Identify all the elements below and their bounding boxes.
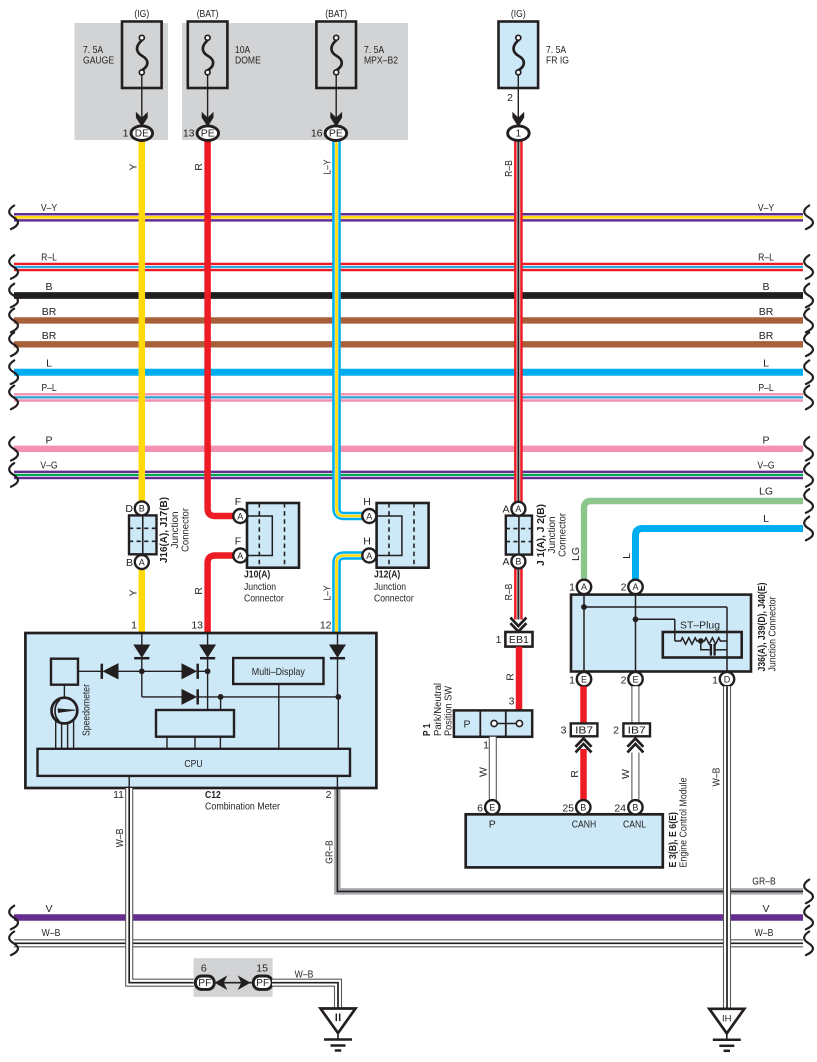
- svg-text:R: R: [193, 587, 205, 595]
- wire from pin1 node down to lower diode row: [141, 671, 143, 697]
- bus wire W-B (horizontal): [14, 939, 803, 947]
- connector arrow into EB1 (double chevron): [510, 618, 526, 626]
- svg-text:Position SW: Position SW: [444, 686, 455, 736]
- svg-text:E: E: [581, 674, 587, 684]
- link between PF terminals with arrows: [213, 982, 254, 984]
- svg-text:1: 1: [131, 620, 137, 632]
- svg-text:W: W: [620, 769, 632, 779]
- diode at pin 13: [200, 645, 215, 657]
- svg-text:2: 2: [621, 582, 627, 594]
- svg-text:FR IG: FR IG: [546, 55, 569, 67]
- combination meter C12 box: [25, 633, 376, 788]
- svg-text:3: 3: [561, 724, 567, 736]
- svg-text:B: B: [762, 281, 769, 293]
- svg-text:L: L: [46, 358, 52, 370]
- svg-text:DOME: DOME: [235, 55, 261, 67]
- svg-text:P: P: [762, 434, 769, 446]
- svg-text:13: 13: [183, 128, 195, 140]
- svg-text:D: D: [125, 503, 133, 515]
- junction connector J36(A), J39(D), J40(E) box: [571, 595, 751, 672]
- terminal 2 A of J36 (top): [628, 580, 642, 594]
- svg-text:A: A: [632, 582, 638, 592]
- svg-text:P–L: P–L: [758, 382, 773, 394]
- svg-text:R–B: R–B: [503, 160, 515, 177]
- svg-text:P: P: [45, 434, 52, 446]
- svg-text:W–B: W–B: [42, 927, 61, 939]
- svg-text:Junction: Junction: [547, 517, 558, 554]
- svg-text:B: B: [580, 803, 586, 813]
- svg-text:ST–Plug: ST–Plug: [680, 620, 720, 631]
- multi-display box: [233, 658, 323, 684]
- wire from A2 node to ST-plug left side: [636, 618, 675, 620]
- node at pin1/diode row junction: [139, 668, 145, 674]
- diode at pin 12: [330, 645, 345, 657]
- svg-text:J36(A), J39(D), J40(E): J36(A), J39(D), J40(E): [757, 583, 768, 672]
- switch contact line: [497, 723, 516, 725]
- svg-text:F: F: [235, 496, 241, 508]
- svg-text:(IG): (IG): [134, 8, 149, 20]
- svg-text:Junction: Junction: [244, 581, 276, 593]
- svg-text:PF: PF: [198, 978, 211, 989]
- svg-text:Junction: Junction: [374, 581, 406, 593]
- svg-text:PE: PE: [201, 129, 215, 140]
- terminal 2 E of J36 (bottom): [628, 672, 642, 686]
- svg-text:Combination Meter: Combination Meter: [205, 801, 280, 813]
- speedometer drive square to speedometer: [63, 685, 65, 698]
- svg-text:Junction: Junction: [170, 512, 181, 549]
- svg-text:Y: Y: [127, 589, 139, 596]
- wire R from IB7 to ECM CANH: [580, 749, 587, 800]
- terminal 24 B of ECM: [628, 800, 642, 814]
- ground II: [321, 1009, 356, 1034]
- svg-text:V: V: [762, 903, 769, 915]
- terminal A of J10 (bottom, F): [233, 549, 247, 563]
- code box EB1: [505, 632, 532, 647]
- svg-text:2: 2: [613, 724, 619, 736]
- fuse wire GAUGE to connector: [141, 75, 143, 119]
- PF connector panel: [194, 958, 273, 997]
- connector terminal 13 PE: [197, 126, 219, 141]
- multi-display lead to CPU: [278, 684, 280, 749]
- svg-text:1: 1: [569, 674, 575, 686]
- diode (right pointing, lower row): [182, 690, 196, 704]
- node at pin13/diode row junction: [205, 668, 211, 674]
- wire Y from J16 connector to combination meter pin 1: [139, 569, 146, 633]
- wire R from fuse DOME to J10 connector pin A: [208, 140, 234, 516]
- svg-text:DE: DE: [135, 129, 149, 140]
- diode (left pointing): [104, 664, 119, 679]
- engine control module box: [466, 814, 663, 867]
- svg-text:W: W: [478, 767, 490, 777]
- bus wire V (horizontal): [14, 914, 803, 921]
- connector terminal 16 PE: [325, 126, 347, 141]
- gauge block (top left): [51, 659, 78, 685]
- svg-text:1: 1: [123, 128, 129, 140]
- svg-text:A: A: [502, 556, 509, 568]
- capacitor lead from centre tap: [701, 641, 710, 650]
- bus wire L (horizontal): [14, 369, 803, 376]
- bus wire LG (horizontal, right side): [584, 501, 803, 580]
- svg-text:Connector: Connector: [181, 507, 192, 552]
- wire W-B from PF to ground II: [272, 983, 338, 1009]
- svg-text:P: P: [463, 719, 470, 731]
- svg-text:B: B: [126, 557, 133, 569]
- svg-text:C12: C12: [205, 789, 221, 801]
- fuse 7.5A MPX-B2: [316, 22, 356, 89]
- fuse 7.5A FR IG: [499, 22, 539, 89]
- CPU lead to pin 11: [128, 776, 130, 788]
- fuse block panel (DOME, MPX-B2): [182, 23, 408, 140]
- wire W-B from J36 D1 to ground IH: [723, 686, 731, 1009]
- svg-text:Multi–Display: Multi–Display: [252, 667, 306, 678]
- svg-text:Engine Control Module: Engine Control Module: [679, 777, 690, 867]
- park/neutral position switch P1 box: [454, 710, 532, 736]
- svg-text:A: A: [366, 511, 372, 521]
- svg-text:A: A: [502, 504, 509, 516]
- svg-text:Connector: Connector: [244, 593, 284, 605]
- svg-text:1: 1: [712, 674, 718, 686]
- svg-text:16: 16: [311, 128, 323, 140]
- svg-text:W–B: W–B: [755, 927, 774, 939]
- svg-text:12: 12: [320, 620, 332, 632]
- svg-text:1: 1: [496, 634, 502, 646]
- svg-text:BR: BR: [759, 306, 774, 318]
- svg-text:IB7: IB7: [575, 725, 594, 736]
- wire L-Y from J12 connector pin A to combination meter pin 12: [337, 556, 363, 634]
- wire gauge block to diodes: [78, 670, 102, 672]
- svg-text:R–L: R–L: [41, 252, 57, 264]
- wire R-B from J1 connector to EB1: [514, 568, 523, 619]
- node on A2 bus: [633, 616, 639, 622]
- fuse block panel (GAUGE): [75, 23, 169, 140]
- pin 13 lead into diode: [207, 633, 209, 645]
- bus wire P (horizontal): [14, 446, 803, 452]
- svg-text:24: 24: [614, 802, 626, 814]
- svg-text:B: B: [45, 281, 52, 293]
- terminal 1 E of J36 (bottom): [577, 672, 591, 686]
- svg-text:V–Y: V–Y: [41, 202, 57, 214]
- bus wire P-L (horizontal): [14, 393, 803, 402]
- terminal A of J12 (top, H): [362, 509, 376, 523]
- connector terminal 1 DE: [131, 126, 153, 141]
- terminal A of J12 (bottom, H): [362, 549, 376, 563]
- capacitor: [710, 644, 712, 656]
- wire W-B from combination meter pin 11 to PF connector: [129, 788, 195, 983]
- J36 internal bus A1-E1: [583, 595, 585, 672]
- svg-text:3: 3: [509, 696, 515, 708]
- wire R from J36 E1 to IB7: [580, 686, 587, 723]
- svg-text:BR: BR: [42, 306, 57, 318]
- svg-text:P 1: P 1: [422, 723, 433, 736]
- code box IB7 (CANH): [571, 723, 598, 736]
- pin 1 lead into diode: [141, 633, 143, 645]
- junction connector J16(A), J17(B) box: [129, 515, 157, 554]
- svg-text:(BAT): (BAT): [325, 8, 347, 20]
- wire W from P1 pin 1 to engine control module: [489, 737, 497, 801]
- svg-text:V–G: V–G: [40, 460, 57, 472]
- CPU box: [38, 749, 351, 776]
- code box IB7 (CANL): [623, 723, 650, 736]
- node at resistor centre tap: [698, 638, 704, 644]
- svg-text:J 1(A), J 2(B): J 1(A), J 2(B): [536, 504, 547, 566]
- junction connector J10(A) box: [247, 503, 299, 568]
- svg-text:CANL: CANL: [623, 819, 646, 831]
- terminal A of J16 (bottom): [135, 555, 149, 569]
- terminal 1 A of J36 (top): [577, 580, 591, 594]
- wire Y from fuse GAUGE to J16 connector: [139, 140, 146, 502]
- fuse 7.5A GAUGE: [122, 22, 162, 89]
- svg-text:MPX–B2: MPX–B2: [364, 55, 398, 67]
- diode at pin 1: [134, 645, 149, 657]
- svg-text:H: H: [363, 536, 371, 548]
- svg-text:B: B: [515, 557, 521, 567]
- connector terminal 1 (FR IG): [508, 126, 530, 141]
- svg-text:Connector: Connector: [374, 593, 414, 605]
- svg-text:LG: LG: [759, 486, 773, 498]
- driver block leads to CPU: [166, 737, 168, 749]
- svg-text:L–Y: L–Y: [321, 159, 333, 174]
- fuse wire MPX-B2 to connector: [335, 75, 337, 119]
- node on lower row feeding driver block: [218, 694, 224, 700]
- bus wire BR (horizontal): [14, 341, 803, 347]
- bus wire L (horizontal, right side): [636, 529, 804, 580]
- svg-text:Speedometer: Speedometer: [82, 683, 93, 736]
- wire from A1 node to ST-plug right side: [584, 606, 727, 608]
- svg-text:A: A: [515, 504, 521, 514]
- svg-text:L: L: [621, 553, 633, 559]
- svg-text:R: R: [569, 770, 581, 778]
- svg-text:6: 6: [201, 962, 207, 974]
- svg-text:A: A: [237, 551, 243, 561]
- svg-text:V–Y: V–Y: [758, 202, 774, 214]
- svg-text:E: E: [489, 803, 495, 813]
- svg-text:CPU: CPU: [184, 758, 202, 770]
- svg-text:E 3(B), E 6(E): E 3(B), E 6(E): [668, 812, 679, 868]
- svg-text:2: 2: [326, 789, 332, 801]
- svg-text:EB1: EB1: [509, 635, 529, 646]
- svg-text:13: 13: [191, 620, 203, 632]
- connector arrow IB7 CANL (double chevron up): [627, 738, 643, 746]
- svg-text:J16(A), J17(B): J16(A), J17(B): [159, 497, 170, 563]
- svg-text:BR: BR: [42, 330, 57, 342]
- connector arrow IB7 CANH (double chevron up): [576, 738, 592, 746]
- svg-text:P: P: [489, 819, 496, 831]
- svg-text:R: R: [193, 163, 205, 171]
- wire R from J10 connector pin A to combination meter pin 13: [208, 556, 234, 634]
- svg-text:15: 15: [256, 962, 268, 974]
- ground IH: [709, 1009, 744, 1034]
- svg-text:IB7: IB7: [628, 725, 647, 736]
- svg-text:IH: IH: [722, 1013, 732, 1024]
- J36 internal bus A2-E2: [635, 595, 637, 672]
- svg-text:L: L: [763, 513, 769, 525]
- meter driver block: [156, 710, 234, 737]
- svg-text:11: 11: [113, 789, 124, 801]
- terminal A of J1 (top): [511, 502, 525, 516]
- terminal 1 D of J36 (bottom right): [720, 672, 734, 686]
- svg-text:2: 2: [507, 92, 513, 104]
- svg-text:J10(A): J10(A): [244, 569, 270, 581]
- fuse 10A DOME: [188, 22, 228, 89]
- svg-text:PF: PF: [256, 978, 269, 989]
- svg-text:B: B: [139, 504, 145, 514]
- svg-text:(IG): (IG): [511, 8, 526, 20]
- svg-text:R–L: R–L: [758, 252, 774, 264]
- diode (right pointing, upper row): [182, 664, 196, 678]
- svg-text:V–G: V–G: [757, 460, 774, 472]
- svg-text:L–Y: L–Y: [321, 585, 333, 600]
- wire R-B from fuse FR IG to J1 connector: [514, 140, 523, 502]
- terminal B of J1 (bottom): [511, 554, 525, 568]
- svg-text:Junction Connector: Junction Connector: [768, 596, 779, 672]
- svg-text:R–B: R–B: [503, 584, 515, 601]
- svg-text:D: D: [724, 674, 731, 684]
- junction connector J 1(A), J 2(B) box: [506, 516, 532, 555]
- svg-text:6: 6: [477, 802, 483, 814]
- terminal 6 PF: [195, 976, 214, 989]
- terminal 6 E of ECM: [485, 800, 499, 814]
- wire GR-B from combination meter pin 2 to right edge: [337, 788, 803, 891]
- svg-text:W–B: W–B: [114, 829, 126, 848]
- svg-text:GAUGE: GAUGE: [83, 55, 114, 67]
- svg-text:GR–B: GR–B: [323, 840, 335, 863]
- wire R from EB1 to park/neutral position switch: [516, 647, 523, 711]
- svg-text:L: L: [763, 358, 769, 370]
- terminal 15 PF: [253, 976, 272, 989]
- bus wire B (horizontal): [14, 292, 803, 299]
- speedometer dial: [52, 698, 78, 724]
- svg-text:W–B: W–B: [711, 768, 723, 787]
- svg-text:Y: Y: [127, 163, 139, 170]
- svg-text:P–L: P–L: [41, 382, 56, 394]
- svg-text:CANH: CANH: [572, 819, 596, 831]
- svg-text:A: A: [237, 511, 243, 521]
- svg-text:A: A: [366, 551, 372, 561]
- svg-text:PE: PE: [329, 129, 343, 140]
- svg-text:F: F: [235, 536, 241, 548]
- terminal A of J10 (top, F): [233, 509, 247, 523]
- svg-text:R: R: [505, 673, 517, 681]
- ST-Plug box: [663, 632, 742, 658]
- svg-text:1: 1: [516, 129, 521, 140]
- terminal 25 B of ECM: [576, 800, 590, 814]
- svg-text:V: V: [45, 903, 52, 915]
- svg-text:J12(A): J12(A): [374, 569, 400, 581]
- svg-text:(BAT): (BAT): [197, 8, 219, 20]
- fuse wire FR IG pin 2 to connector: [517, 75, 519, 119]
- fuse wire DOME to connector: [207, 75, 209, 119]
- svg-text:1: 1: [569, 582, 575, 594]
- svg-text:H: H: [363, 496, 371, 508]
- speedometer leads to CPU: [55, 720, 57, 748]
- svg-text:Park/Neutral: Park/Neutral: [433, 683, 444, 736]
- bus wire V-Y (horizontal): [14, 213, 803, 222]
- wire W from IB7 to ECM CANL: [631, 753, 639, 801]
- junction connector J12(A) box: [377, 503, 429, 568]
- svg-text:LG: LG: [570, 547, 582, 561]
- svg-text:1: 1: [483, 740, 489, 752]
- bus wire R-L (horizontal): [14, 263, 803, 272]
- svg-text:GR–B: GR–B: [752, 875, 775, 887]
- resistor (left half): [675, 638, 701, 644]
- svg-text:25: 25: [562, 802, 574, 814]
- svg-text:Connector: Connector: [558, 512, 569, 557]
- svg-text:E: E: [632, 674, 638, 684]
- svg-text:2: 2: [621, 674, 627, 686]
- wire W from J36 E2 to IB7: [631, 686, 639, 723]
- bus wire V-G (horizontal): [14, 471, 803, 480]
- node on A1 bus: [581, 604, 587, 610]
- node on lower row at pin 12 line: [335, 694, 341, 700]
- svg-text:BR: BR: [759, 330, 774, 342]
- svg-text:A: A: [581, 582, 587, 592]
- bus wire BR (horizontal): [14, 317, 803, 323]
- svg-text:A: A: [139, 557, 145, 567]
- terminal B of J16 (top): [135, 501, 149, 515]
- wire L-Y from fuse MPX-B2 to J12 connector pin A: [337, 140, 363, 516]
- CPU lead to pin 2: [336, 776, 338, 788]
- svg-text:W–B: W–B: [295, 968, 314, 980]
- resistor (right half): [701, 638, 727, 644]
- svg-text:B: B: [632, 803, 638, 813]
- pin 12 lead into diode: [337, 633, 339, 645]
